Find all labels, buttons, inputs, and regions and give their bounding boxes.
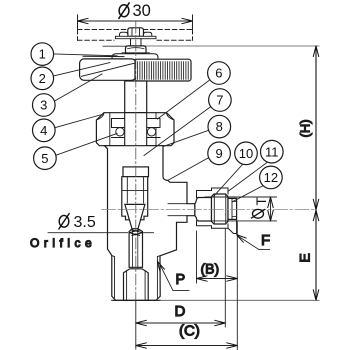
stem cap nut	[115, 28, 156, 39]
svg-text:Orifice: Orifice	[30, 236, 96, 250]
balloon 7	[209, 89, 232, 112]
dimension (B)	[197, 222, 238, 350]
leader balloon 5 to packing	[56, 134, 117, 156]
leader balloon 9 to valve body	[169, 158, 209, 181]
leader balloon 2 to handle bar	[54, 63, 110, 77]
handle swing phantom (dashed box)	[78, 30, 193, 41]
port upper collar	[197, 188, 229, 198]
svg-text:T: T	[254, 197, 269, 205]
svg-text:9: 9	[215, 146, 222, 161]
svg-text:3.5: 3.5	[74, 214, 96, 231]
valve body	[105, 146, 195, 301]
svg-text:30: 30	[133, 2, 151, 20]
packing gland internals	[112, 119, 161, 138]
washer band	[115, 36, 156, 38]
knurling	[138, 62, 189, 80]
bottom edge	[112, 299, 160, 301]
dimension D	[136, 229, 226, 349]
stem neck between washer and nut	[131, 39, 142, 46]
handle bar top plane line left of nut	[103, 45, 128, 47]
svg-text:P: P	[176, 272, 186, 288]
bonnet packing nut	[96, 113, 174, 146]
needle cone	[125, 204, 145, 228]
balloon 11	[261, 140, 284, 163]
spring washer bumps	[120, 32, 128, 36]
bottom extension line	[161, 299, 320, 301]
svg-text:4: 4	[40, 123, 47, 138]
svg-text:E: E	[297, 253, 313, 262]
svg-text:F: F	[261, 232, 270, 249]
svg-text:(C): (C)	[179, 323, 200, 340]
stem through bonnet	[125, 113, 147, 167]
stem	[125, 81, 147, 113]
thread lines on bottom male thread	[112, 256, 160, 298]
leader balloon 7 to stem	[144, 107, 211, 156]
handle knurled knob	[135, 59, 191, 81]
handle lever bar	[80, 59, 136, 80]
side port gland	[195, 198, 212, 222]
balloon 4	[33, 119, 56, 142]
handle hex nut	[122, 46, 150, 54]
port centerline	[102, 209, 317, 211]
svg-text:(B): (B)	[201, 261, 220, 277]
leader balloon 12 to port nut	[232, 186, 263, 202]
svg-text:10: 10	[239, 146, 253, 161]
svg-text:1: 1	[39, 47, 46, 62]
dimension phiT	[205, 197, 277, 221]
lower stem shoulder	[122, 167, 149, 220]
side port stub tube	[228, 198, 237, 219]
F label leader	[238, 236, 270, 250]
svg-text:(H): (H)	[298, 119, 313, 137]
svg-text:8: 8	[216, 119, 223, 134]
dimension (C)	[136, 345, 238, 347]
leader balloon 1 to handle bar	[54, 54, 117, 56]
balloon 6	[208, 62, 231, 85]
svg-text:5: 5	[41, 151, 48, 166]
balloon 5	[34, 147, 57, 170]
dimension (H)/E vertical line	[315, 46, 317, 300]
side port nut	[212, 194, 229, 224]
leader balloon 6 to bonnet corner	[158, 81, 210, 120]
dimension phi3.5	[48, 232, 154, 234]
dimension phi30 text	[119, 2, 151, 20]
(H) extension line from nut top	[144, 45, 319, 47]
svg-text:7: 7	[216, 93, 223, 108]
dimension phi30 line	[78, 15, 193, 29]
plunger shell	[122, 177, 148, 220]
P label leader	[159, 263, 189, 290]
svg-text:6: 6	[215, 66, 222, 81]
svg-text:12: 12	[264, 170, 278, 185]
balloon 3	[33, 94, 56, 117]
handle hub plate	[112, 54, 158, 60]
balloon 10	[235, 142, 258, 165]
leader balloon 10 to port gland	[214, 164, 243, 196]
balloon 1	[31, 43, 54, 66]
vertical centerline	[135, 22, 137, 301]
svg-text:11: 11	[265, 144, 279, 159]
svg-text:3: 3	[40, 98, 47, 113]
leader balloon 4 to bonnet	[55, 115, 102, 128]
balloon 8	[208, 115, 231, 138]
handle bar back edge	[83, 55, 124, 57]
lower-right body step (F target)	[228, 219, 237, 233]
orifice tube	[129, 229, 142, 267]
leader balloon 11 to port collar	[229, 163, 268, 192]
bottom plug hex	[124, 269, 149, 301]
leader balloon 8 to body shoulder	[163, 131, 208, 147]
svg-text:2: 2	[39, 71, 46, 86]
balloon 9	[208, 142, 231, 165]
port bore lines inside body	[168, 204, 187, 216]
svg-text:D: D	[175, 303, 186, 320]
balloon 2	[31, 67, 54, 90]
leader balloon 3 to handle bar end	[55, 74, 102, 101]
balloon 12	[260, 166, 283, 189]
port lower collar	[197, 221, 229, 228]
